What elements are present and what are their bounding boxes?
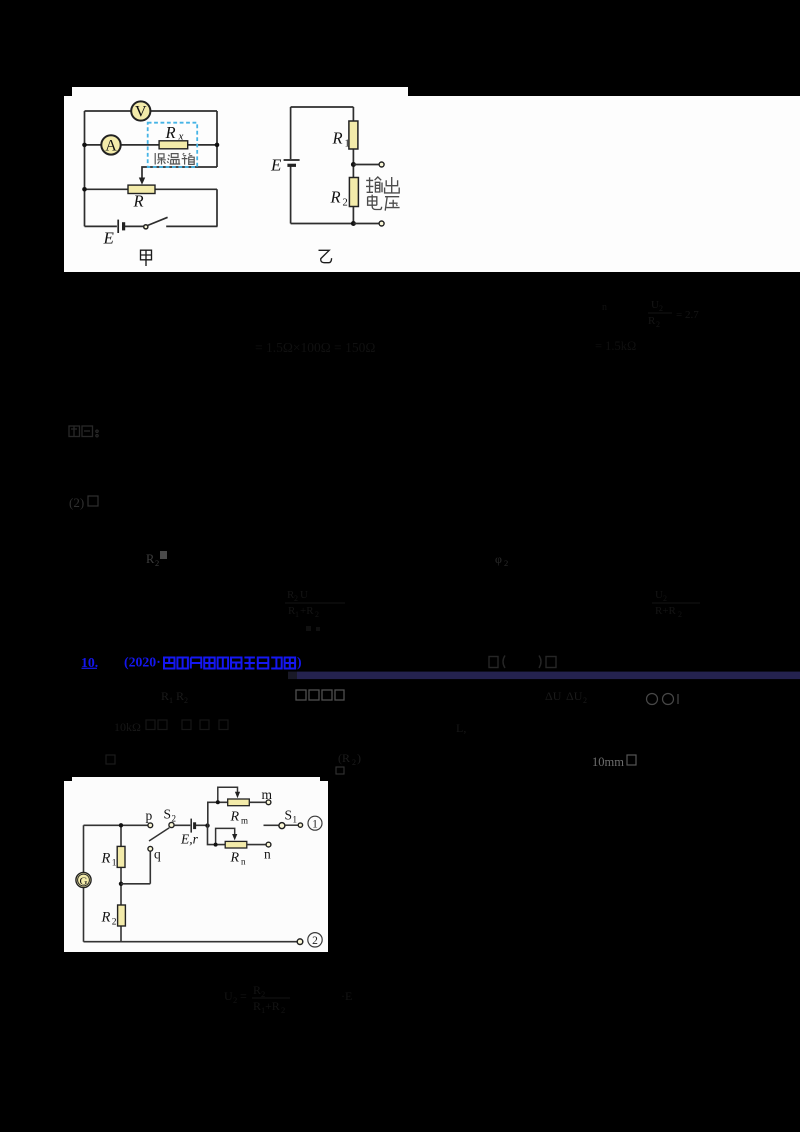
faint specks above fig2 box — [336, 767, 344, 774]
svg-text:2: 2 — [112, 918, 117, 928]
svg-text:p: p — [146, 808, 153, 823]
wire: outer loop left/top/bottom of 甲 — [85, 111, 218, 226]
svg-text:R: R — [230, 810, 240, 825]
switch S2 terminal — [169, 822, 174, 827]
svg-text:R+R: R+R — [655, 605, 677, 617]
faint 10kohm line y~727 — [114, 720, 141, 734]
terminal at node 2 — [297, 939, 303, 945]
svg-text:ΔU: ΔU — [566, 689, 583, 703]
svg-text:U: U — [655, 589, 663, 601]
junction dot between R1 and R2 — [119, 882, 123, 886]
label 电压 (drawn glyphs) — [368, 195, 400, 211]
svg-text:R: R — [230, 851, 240, 866]
figure strip background (甲/乙 panel) — [64, 87, 800, 272]
switch S1 stub wire — [264, 824, 280, 826]
terminal q — [148, 846, 153, 851]
svg-text:x: x — [178, 131, 184, 143]
wire: 乙 outer loop — [291, 107, 354, 224]
svg-text:2: 2 — [155, 558, 159, 568]
svg-text:V: V — [135, 104, 147, 121]
svg-text:R: R — [648, 315, 656, 327]
switch S1 lever — [285, 824, 298, 826]
svg-text:G: G — [80, 875, 88, 887]
faint 别解 heading (CJK blocks) — [69, 426, 98, 437]
faint tiny bits y~630 — [306, 626, 311, 631]
output terminal bottom — [379, 221, 384, 226]
svg-text:2: 2 — [312, 935, 318, 947]
faint circled 1 2 y~700 — [647, 694, 679, 705]
resistor R2 (fig2) — [118, 905, 126, 926]
svg-text:R: R — [133, 192, 144, 211]
svg-text:q: q — [154, 847, 161, 862]
svg-text:U: U — [300, 589, 308, 601]
faint formula cluster top right (phi fraction) — [648, 299, 699, 329]
svg-text:= 1.5Ω×100Ω = 150Ω: = 1.5Ω×100Ω = 150Ω — [255, 340, 375, 355]
label 乙 (drawn glyph) — [319, 250, 332, 262]
label Rm — [230, 810, 249, 826]
svg-text:R: R — [146, 552, 155, 566]
svg-text:n: n — [241, 857, 246, 867]
svg-text:2: 2 — [281, 1005, 285, 1015]
svg-text:= 2.7: = 2.7 — [676, 309, 699, 321]
svg-text:10mm: 10mm — [592, 755, 624, 769]
svg-text:2: 2 — [583, 696, 587, 705]
ammeter A — [101, 135, 120, 154]
svg-text:n: n — [602, 302, 607, 313]
faint CJK block after (2) — [88, 496, 98, 506]
svg-text:·E: ·E — [341, 989, 352, 1003]
svg-text:L,: L, — [456, 721, 466, 735]
svg-text:2: 2 — [294, 594, 298, 603]
faint fraction cluster left (y~600) — [285, 589, 345, 619]
faint speck y~758 — [106, 755, 115, 764]
junction dot top of R1 — [119, 823, 123, 827]
svg-text:2: 2 — [184, 696, 188, 705]
resistor R1 (乙) — [349, 121, 358, 149]
label S2 — [164, 807, 177, 824]
svg-text:2: 2 — [656, 320, 660, 329]
wire: R1/R2 branch vertical — [120, 825, 122, 941]
svg-text:1: 1 — [295, 610, 299, 619]
wire: rheostat R row — [85, 188, 218, 190]
svg-text:m: m — [241, 816, 248, 826]
svg-text:+R: +R — [265, 999, 280, 1013]
terminal p — [148, 823, 153, 828]
junction dot output top — [351, 162, 356, 167]
rheostat Rn — [225, 841, 247, 848]
faint fraction cluster right (y~600) — [652, 589, 700, 619]
svg-text:S: S — [285, 808, 293, 823]
svg-text:R: R — [330, 188, 341, 207]
wire: jog under thermostat box to arrow — [142, 167, 217, 180]
svg-text:E: E — [103, 229, 115, 248]
junction dot right of Rx row — [215, 143, 220, 148]
svg-text:E: E — [270, 156, 282, 175]
svg-text:2: 2 — [343, 198, 348, 209]
svg-text:1: 1 — [312, 819, 318, 831]
svg-text:1: 1 — [345, 139, 350, 150]
node 1 circled terminal — [308, 816, 322, 830]
svg-text:2: 2 — [233, 995, 237, 1005]
svg-text:R: R — [332, 129, 343, 148]
blue headline CJK blocks — [164, 658, 295, 669]
svg-text:2: 2 — [678, 610, 682, 619]
svg-text:m: m — [262, 787, 273, 802]
faint answer blank on headline row — [489, 656, 556, 669]
svg-text:): ) — [297, 655, 302, 671]
terminal m — [266, 800, 271, 805]
wire: bottom battery row — [85, 225, 218, 227]
Rm slider loop with arrow — [218, 787, 238, 802]
label S1 — [285, 808, 298, 825]
navy divider band — [288, 672, 297, 680]
label 保温箱 (drawn glyphs) — [155, 153, 194, 165]
junction dot after battery — [205, 823, 209, 827]
label Rx — [165, 123, 184, 143]
wire Rm to terminal m — [249, 801, 265, 803]
svg-text:R: R — [253, 983, 261, 997]
terminal n — [266, 842, 271, 847]
svg-text:A: A — [105, 138, 117, 155]
switch (甲) — [144, 217, 168, 229]
faint formula below fig2 (U2 fraction) — [224, 983, 352, 1015]
svg-text:=: = — [240, 989, 247, 1003]
label Rn — [230, 851, 247, 867]
rheostat R — [128, 185, 155, 193]
wire to bottom output terminal — [353, 223, 379, 225]
switch S1 right terminal — [298, 823, 302, 827]
resistor R2 (乙) — [349, 178, 358, 207]
svg-text:ΔU: ΔU — [545, 689, 562, 703]
junction dots left vertical — [82, 143, 87, 148]
svg-text:R: R — [253, 999, 261, 1013]
svg-text:(2): (2) — [69, 495, 84, 510]
battery E (乙) — [284, 160, 300, 165]
svg-text:U: U — [651, 299, 659, 311]
switch S1 left terminal — [279, 823, 285, 829]
svg-text:1: 1 — [112, 859, 117, 869]
svg-text:(R: (R — [338, 751, 350, 765]
svg-text:S: S — [164, 807, 172, 822]
arrowhead onto R slider — [139, 178, 145, 185]
label R2 (乙) — [330, 188, 348, 209]
svg-text:2: 2 — [352, 758, 356, 767]
svg-text:2: 2 — [663, 594, 667, 603]
galvanometer G — [76, 872, 91, 887]
svg-text:φ: φ — [495, 552, 502, 566]
svg-text:R: R — [161, 689, 169, 703]
svg-text:): ) — [357, 751, 361, 765]
resistor R1 (fig2) — [117, 846, 125, 867]
voltmeter V — [131, 101, 150, 120]
problem number 10 heading (blue) — [81, 655, 161, 671]
node 2 circled terminal — [308, 933, 322, 948]
junction dot Rn left — [214, 843, 218, 847]
label 输出 (drawn glyphs) — [366, 177, 399, 193]
svg-text:2: 2 — [172, 814, 177, 824]
faint R1 R2 words y~695 — [161, 689, 188, 705]
svg-text:(2020·: (2020· — [124, 655, 161, 671]
label R1 (fig2) — [101, 851, 117, 869]
svg-text:2: 2 — [315, 610, 319, 619]
svg-text:10kΩ: 10kΩ — [114, 720, 141, 734]
Rn slider loop with arrow — [216, 828, 235, 844]
svg-text:2: 2 — [504, 558, 508, 568]
faint R2 paren y~758 — [338, 751, 361, 767]
svg-text:R: R — [101, 910, 111, 926]
thermostat dashed box 保温箱 — [148, 123, 198, 167]
label 甲 (drawn glyph) — [141, 250, 152, 266]
faint bright blocks (R2) y~695 — [296, 690, 344, 700]
svg-text:R: R — [101, 851, 111, 867]
battery E,r (fig2) — [191, 819, 194, 833]
switch S2 lever — [149, 828, 169, 841]
svg-text:R: R — [176, 689, 184, 703]
svg-text:n: n — [264, 847, 271, 862]
wire: fig2 left loop (top, left vertical, bottom) — [84, 825, 298, 941]
label R1 (乙) — [332, 129, 350, 150]
wire Rn to terminal n — [247, 844, 266, 846]
rheostat Rm — [228, 799, 250, 806]
svg-text:+R: +R — [300, 605, 314, 617]
wire from junction to q branch — [121, 852, 150, 884]
faint R2 mid-page — [146, 552, 159, 568]
svg-text:R: R — [165, 123, 176, 142]
svg-text:1: 1 — [169, 696, 173, 705]
faint (2) item — [69, 495, 84, 510]
wire battery junction up to Rm row and down to Rn row — [208, 802, 228, 844]
svg-text:E,r: E,r — [180, 832, 199, 847]
output terminal top — [379, 162, 384, 167]
junction dot output bottom — [351, 221, 356, 226]
wire S2 to battery — [174, 824, 207, 826]
svg-text:= 1.5kΩ: = 1.5kΩ — [595, 339, 636, 353]
svg-text:2: 2 — [659, 304, 663, 313]
battery E (甲) — [118, 220, 123, 233]
faint delta U words y~695 — [545, 689, 587, 705]
junction dot Rm left — [216, 800, 220, 804]
svg-text:U: U — [224, 989, 233, 1003]
wire: ammeter/Rx row — [85, 144, 218, 146]
wire to top output terminal — [353, 164, 379, 166]
label R2 (fig2) — [101, 910, 117, 928]
resistor Rx — [159, 141, 188, 149]
svg-text:1: 1 — [293, 815, 298, 825]
